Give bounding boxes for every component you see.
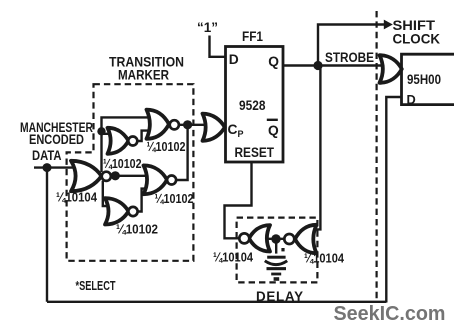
svg-text:D: D bbox=[407, 92, 416, 107]
svg-text:P: P bbox=[238, 129, 244, 139]
svg-text:DELAY: DELAY bbox=[256, 289, 303, 304]
svg-text:*SELECT: *SELECT bbox=[76, 278, 116, 293]
svg-text:¼10102: ¼10102 bbox=[147, 139, 186, 154]
svg-text:CLOCK: CLOCK bbox=[393, 31, 441, 46]
svg-text:¼10104: ¼10104 bbox=[304, 251, 345, 266]
svg-text:95H00: 95H00 bbox=[407, 71, 441, 87]
svg-text:ENCODED: ENCODED bbox=[29, 132, 84, 147]
svg-text:“1”: “1” bbox=[197, 20, 218, 35]
svg-text:MARKER: MARKER bbox=[118, 66, 169, 82]
svg-text:C: C bbox=[228, 122, 238, 137]
svg-text:RESET: RESET bbox=[235, 145, 275, 160]
svg-text:¼10102: ¼10102 bbox=[155, 191, 194, 206]
svg-text:STROBE: STROBE bbox=[325, 50, 374, 66]
svg-text:Q: Q bbox=[268, 123, 279, 138]
svg-text:9528: 9528 bbox=[239, 98, 266, 113]
svg-text:¼10104: ¼10104 bbox=[56, 190, 98, 205]
svg-text:¼10104: ¼10104 bbox=[213, 249, 254, 264]
svg-text:DATA: DATA bbox=[32, 148, 62, 163]
svg-text:Q: Q bbox=[268, 54, 279, 69]
svg-text:SeekIC.com: SeekIC.com bbox=[334, 302, 446, 325]
svg-text:¼10102: ¼10102 bbox=[103, 156, 142, 171]
svg-text:D: D bbox=[229, 52, 239, 67]
svg-text:¼10102: ¼10102 bbox=[116, 222, 158, 237]
svg-text:FF1: FF1 bbox=[242, 29, 263, 44]
